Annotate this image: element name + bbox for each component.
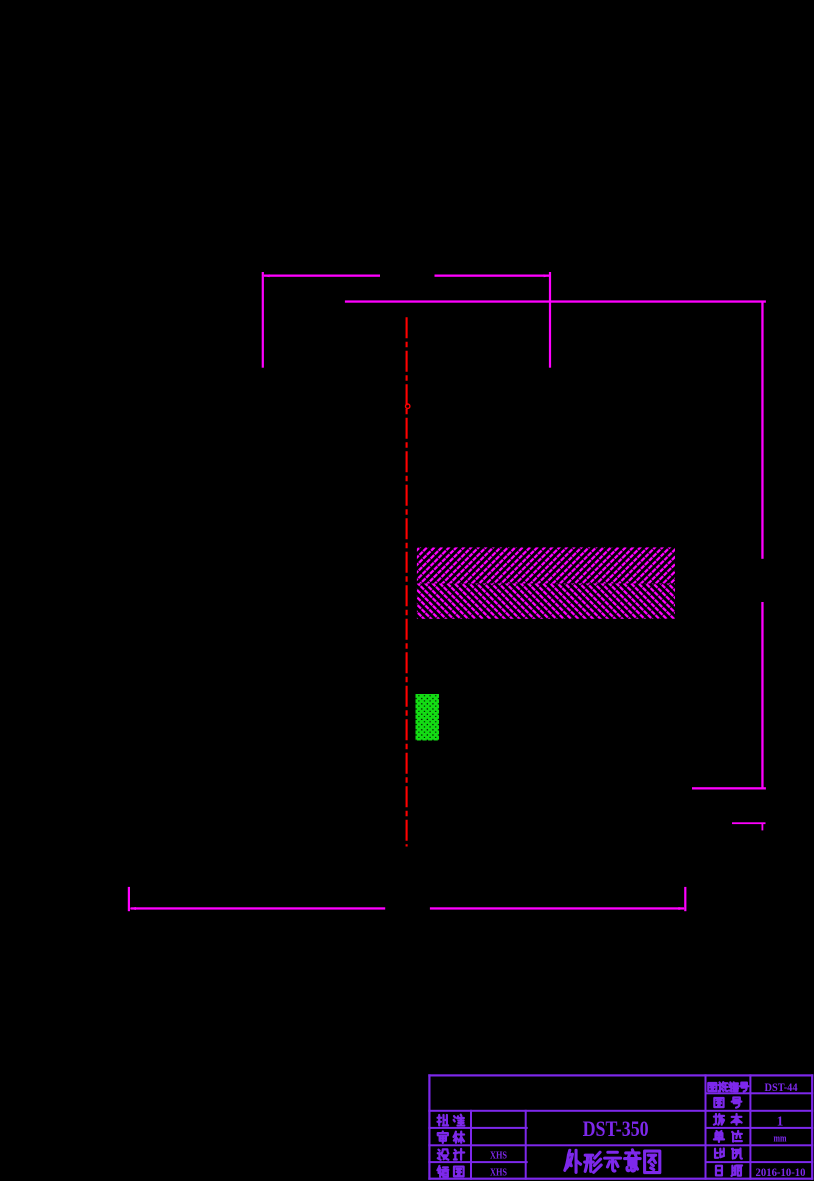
dimension D1 top width dimension line [263,274,550,277]
extension line D1 right [549,272,551,368]
hatched band (section hatch) [417,547,675,618]
svg-text:XHS: XHS [490,1151,507,1162]
extension line D4 right [684,887,686,911]
title block label she ji [438,1149,464,1160]
title block label dan wei [714,1131,742,1142]
svg-text:mm: mm [774,1134,787,1145]
green level indicator block [416,694,440,741]
title block label pi zhun [438,1115,465,1126]
svg-text:DST-44: DST-44 [765,1082,798,1094]
svg-text:DST-350: DST-350 [583,1116,649,1141]
svg-text:1: 1 [777,1114,784,1129]
extension line D2 bottom [692,787,766,789]
extension line D4 left [128,887,130,911]
extension line D1 left [262,272,264,368]
svg-text:XHS: XHS [490,1168,507,1179]
title block label shen he [438,1132,464,1143]
dimension D4 bottom overall width [129,907,685,910]
title block label bi li [715,1148,742,1158]
title block label tu hao [714,1098,741,1108]
extension line D2 top (horizontal, feeds right vertical dimension) [345,300,766,302]
dimension D2 right vertical dimension line [761,302,763,789]
svg-text:2016-10-10: 2016-10-10 [756,1167,806,1179]
centerline (red dash-dot) [406,317,410,846]
title block label hui tu [437,1166,463,1177]
title block label ri qi [716,1165,742,1175]
title block label tuzhibianhao [708,1082,748,1091]
title block title waixing shiyitu [565,1150,660,1173]
dimension D3 small right dimension [732,822,766,830]
title block label ban ben [714,1114,742,1125]
title block frame [428,1074,813,1180]
